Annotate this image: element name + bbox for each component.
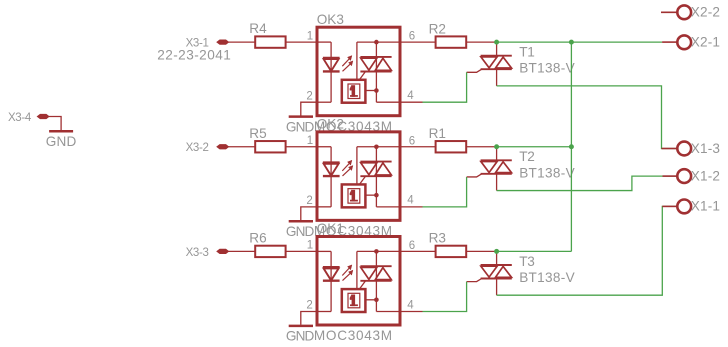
junction OK1 internal bbox=[374, 298, 379, 303]
wire net X2-1 vertical rail bbox=[570, 42, 572, 251]
svg-text:R2: R2 bbox=[429, 21, 446, 36]
optocoupler OK1 body bbox=[317, 237, 400, 326]
wire stub X1-2 bbox=[663, 175, 678, 177]
wire gate net T2 bbox=[423, 177, 467, 207]
wire bbox=[365, 194, 376, 196]
junction rail bbox=[569, 40, 574, 45]
connector X2-1 bbox=[677, 35, 691, 49]
optocoupler OK3 body bbox=[317, 27, 400, 116]
connector X1-2 bbox=[677, 169, 691, 183]
wire pin4 stub bbox=[400, 101, 423, 103]
wire bbox=[229, 146, 256, 148]
svg-text:BT138-V: BT138-V bbox=[519, 165, 575, 180]
svg-text:OK2: OK2 bbox=[317, 117, 344, 132]
wire pin2 to gnd bbox=[301, 207, 317, 220]
svg-text:22-23-2041: 22-23-2041 bbox=[157, 48, 231, 63]
wire bbox=[376, 206, 400, 208]
svg-text:X2-2: X2-2 bbox=[691, 5, 720, 20]
optocoupler OK3 light arrows bbox=[342, 58, 350, 66]
junction triac top T3 bbox=[494, 249, 499, 254]
connector pin X3-2 bbox=[217, 145, 229, 149]
svg-text:6: 6 bbox=[409, 240, 415, 252]
svg-text:X2-1: X2-1 bbox=[691, 35, 720, 50]
svg-text:GND: GND bbox=[286, 224, 315, 239]
svg-text:MOC3043M: MOC3043M bbox=[314, 328, 393, 343]
svg-text:X1-3: X1-3 bbox=[691, 141, 720, 156]
connector pin X3-3 bbox=[217, 249, 229, 253]
wire bbox=[400, 41, 436, 43]
zero-cross box OK2 bbox=[342, 184, 366, 207]
zero-cross box OK1 bbox=[342, 289, 366, 312]
wire pin4 stub bbox=[400, 311, 423, 313]
optocoupler OK1 LED bbox=[317, 250, 331, 252]
wire pin4 stub bbox=[400, 206, 423, 208]
wire stub X2-1 bbox=[662, 41, 677, 43]
wire stub X2-2 bbox=[661, 11, 677, 13]
svg-text:1: 1 bbox=[307, 240, 313, 252]
wire stub X1-3 bbox=[662, 148, 678, 150]
wire pin2 to gnd bbox=[301, 312, 317, 325]
junction OK2 internal bbox=[374, 193, 379, 198]
wire bbox=[286, 41, 317, 43]
wire T1 output net bbox=[497, 86, 678, 149]
wire bbox=[365, 90, 376, 92]
resistor R5 bbox=[255, 141, 285, 152]
svg-text:OK3: OK3 bbox=[317, 12, 344, 27]
zero-cross box OK3 bbox=[342, 80, 366, 103]
svg-text:4: 4 bbox=[407, 90, 414, 102]
svg-text:2: 2 bbox=[306, 300, 312, 312]
svg-text:X1-2: X1-2 bbox=[691, 168, 720, 183]
svg-text:GND: GND bbox=[46, 134, 77, 149]
resistor R6 bbox=[255, 246, 285, 257]
wire bbox=[466, 146, 496, 148]
connector X2-2 bbox=[677, 5, 691, 19]
wire bbox=[400, 146, 436, 148]
wire bbox=[376, 101, 400, 103]
connector pin X3-1 bbox=[217, 40, 229, 44]
svg-text:R5: R5 bbox=[249, 126, 266, 141]
optocoupler OK2 light arrows bbox=[342, 163, 350, 171]
svg-text:4: 4 bbox=[407, 299, 414, 311]
wire bbox=[466, 250, 496, 252]
wire gate net T1 bbox=[423, 72, 467, 102]
svg-text:BT138-V: BT138-V bbox=[519, 61, 575, 76]
connector X1-1 bbox=[677, 200, 691, 214]
svg-text:2: 2 bbox=[306, 195, 312, 207]
svg-text:6: 6 bbox=[409, 135, 415, 147]
wire net X2-1 top rail horizontal bbox=[497, 41, 662, 43]
wire bbox=[365, 299, 376, 301]
wire bbox=[229, 41, 256, 43]
svg-text:2: 2 bbox=[306, 90, 312, 102]
optocoupler OK2 body bbox=[317, 132, 400, 221]
wire pin2 to gnd bbox=[301, 102, 317, 115]
wire bbox=[229, 250, 256, 252]
wire gate net T3 bbox=[423, 282, 467, 312]
wire T2 output net bbox=[497, 176, 678, 190]
triac T1 bbox=[496, 42, 498, 56]
svg-text:1: 1 bbox=[307, 30, 313, 42]
svg-text:1: 1 bbox=[307, 135, 313, 147]
connector pin X3-4 bbox=[37, 114, 49, 118]
triac T2 bbox=[496, 147, 498, 161]
svg-text:OK1: OK1 bbox=[317, 221, 344, 236]
optocoupler OK1 light arrows bbox=[342, 267, 350, 275]
wire bbox=[400, 250, 436, 252]
resistor R4 bbox=[255, 36, 285, 47]
svg-text:X3-3: X3-3 bbox=[186, 247, 209, 259]
wire bbox=[49, 117, 61, 131]
wire bbox=[466, 41, 496, 43]
triac T3 bbox=[496, 251, 498, 265]
resistor R3 bbox=[436, 246, 467, 257]
ground symbol bbox=[289, 115, 313, 118]
wire stub X1-1 bbox=[662, 205, 677, 207]
svg-text:GND: GND bbox=[286, 329, 315, 344]
ground symbol bbox=[289, 325, 313, 328]
svg-text:T2: T2 bbox=[519, 149, 534, 164]
junction OK3 internal bbox=[374, 88, 379, 93]
svg-text:GND: GND bbox=[286, 119, 315, 134]
wire bbox=[286, 146, 317, 148]
optocoupler OK2 photo-triac bbox=[357, 146, 400, 148]
svg-text:4: 4 bbox=[407, 195, 414, 207]
optocoupler OK3 photo-triac bbox=[357, 41, 400, 43]
svg-text:6: 6 bbox=[409, 31, 415, 43]
svg-text:R3: R3 bbox=[429, 231, 446, 246]
junction triac top T1 bbox=[494, 40, 499, 45]
svg-text:R4: R4 bbox=[249, 21, 267, 36]
wire row3 to rail bbox=[497, 250, 572, 252]
ground symbol bbox=[289, 220, 313, 223]
resistor R1 bbox=[436, 141, 467, 152]
svg-text:BT138-V: BT138-V bbox=[519, 270, 575, 285]
optocoupler OK1 photo-triac bbox=[357, 250, 400, 252]
svg-text:T1: T1 bbox=[519, 45, 534, 60]
wire row2 to rail bbox=[497, 146, 572, 148]
svg-text:X1-1: X1-1 bbox=[691, 199, 720, 214]
ground symbol X3-4 bbox=[49, 130, 73, 133]
svg-text:T3: T3 bbox=[519, 254, 534, 269]
resistor R2 bbox=[436, 36, 467, 47]
wire T3 output net bbox=[497, 206, 678, 295]
wire bbox=[286, 250, 317, 252]
junction rail row2 bbox=[569, 144, 574, 149]
connector X1-3 bbox=[677, 142, 691, 156]
optocoupler OK3 LED bbox=[317, 41, 331, 43]
wire bbox=[376, 311, 400, 313]
svg-text:R6: R6 bbox=[249, 230, 266, 245]
junction pin6 OK2 bbox=[374, 144, 379, 149]
svg-text:R1: R1 bbox=[429, 126, 446, 141]
junction pin6 OK1 bbox=[374, 249, 379, 254]
junction pin6 OK3 bbox=[374, 40, 379, 45]
optocoupler OK2 LED bbox=[317, 146, 331, 148]
svg-text:X3-2: X3-2 bbox=[186, 142, 209, 154]
junction triac top T2 bbox=[494, 144, 499, 149]
svg-text:X3-4: X3-4 bbox=[8, 112, 32, 124]
